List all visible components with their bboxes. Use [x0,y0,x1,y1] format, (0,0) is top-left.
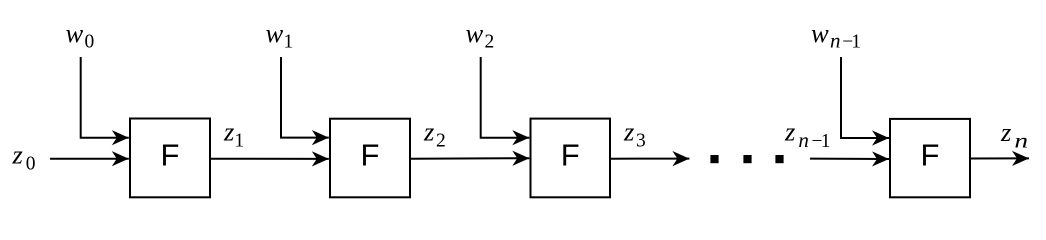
svg-text:1: 1 [851,32,861,53]
svg-text:z: z [623,117,634,147]
svg-text:1: 1 [821,131,831,152]
ellipsis dot 3 [775,155,783,163]
svg-text:2: 2 [436,130,446,151]
svg-text:1: 1 [234,130,244,151]
wire z0 input arrow [50,158,129,160]
block F4 [890,119,970,197]
svg-text:z: z [423,117,434,147]
wire w0 input elbow arrow [81,57,129,138]
wire w(n-1) input elbow arrow [841,57,889,138]
svg-text:F: F [921,138,940,173]
svg-text:z: z [1000,117,1011,147]
wire zn output arrow [970,157,1029,159]
svg-text:w: w [466,18,484,48]
svg-text:w: w [266,18,284,48]
svg-text:F: F [161,138,180,173]
svg-text:z: z [12,140,23,170]
wire z1 arrow F1 to F2 [210,158,329,160]
wire z(n-1) arrow dots to F4 [810,158,889,160]
wire z3 arrow F3 to dots [610,158,689,160]
svg-text:w: w [811,18,829,48]
svg-text:F: F [561,138,580,173]
svg-text:1: 1 [284,32,294,53]
ellipsis dot 1 [710,155,718,163]
svg-text:z: z [784,117,795,147]
svg-text:w: w [66,18,84,48]
svg-text:3: 3 [636,130,646,151]
block F2 [330,119,410,198]
ellipsis dot 2 [743,155,751,163]
svg-text:n: n [1014,129,1028,152]
svg-text:0: 0 [26,153,36,174]
svg-text:2: 2 [485,32,495,53]
wire z2 arrow F2 to F3 [410,157,529,160]
svg-text:z: z [223,117,234,147]
svg-text:F: F [361,138,380,173]
wire w1 input elbow arrow [281,57,329,138]
svg-text:n: n [798,128,809,152]
wire w2 input elbow arrow [481,57,530,138]
block F3 [531,119,611,198]
svg-text:0: 0 [85,32,95,53]
svg-text:n: n [830,29,841,53]
block F1 [130,119,210,198]
